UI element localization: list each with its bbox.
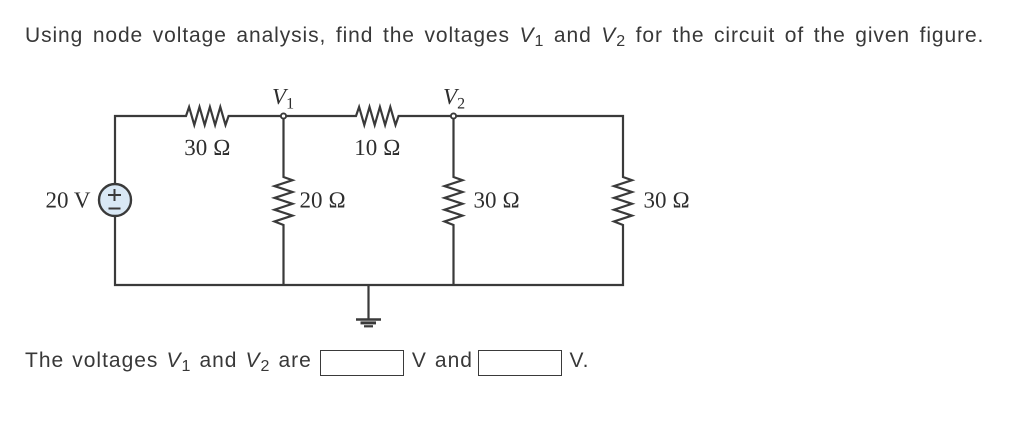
- svg-text:30 Ω: 30 Ω: [644, 188, 690, 213]
- svg-text:30 Ω: 30 Ω: [184, 135, 230, 160]
- svg-text:20 V: 20 V: [46, 188, 91, 213]
- svg-text:20 Ω: 20 Ω: [300, 188, 346, 213]
- svg-text:V1: V1: [272, 84, 294, 113]
- svg-text:30 Ω: 30 Ω: [474, 188, 520, 213]
- svg-text:10 Ω: 10 Ω: [354, 135, 400, 160]
- svg-text:V2: V2: [443, 84, 465, 113]
